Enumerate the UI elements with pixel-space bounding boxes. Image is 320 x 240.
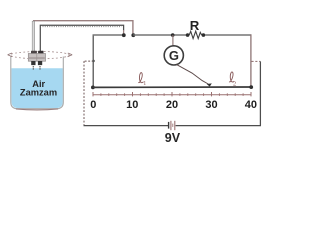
- beaker body walls: [11, 57, 64, 109]
- jockey wire from galvanometer: [176, 64, 208, 84]
- electrode prongs: [31, 61, 35, 65]
- beaker bottom edge: [16, 109, 58, 110]
- top wire to right corner: [205, 34, 251, 36]
- electrode block: [28, 54, 45, 62]
- ruler ticks: [93, 92, 251, 96]
- svg-text:10: 10: [126, 99, 138, 111]
- node on left vertical: [92, 60, 95, 63]
- svg-text:9V: 9V: [165, 131, 181, 145]
- beaker liquid (Air Zamzam): [12, 68, 63, 108]
- label l1 (script ell): [138, 73, 143, 83]
- prong dots into liquid: [33, 66, 35, 68]
- left electrode rod (light): [32, 21, 35, 51]
- node: cell left terminal: [122, 33, 126, 37]
- resistor R node right: [202, 33, 206, 37]
- beaker rim (dashed ellipse with spouts): [10, 52, 69, 59]
- right outer vertical wire: [259, 61, 261, 125]
- battery 9V plates: [168, 122, 170, 129]
- resistor R zigzag: [189, 31, 202, 38]
- right inner vertical wire: [250, 34, 252, 87]
- top wire left segment: [93, 34, 124, 36]
- wire from right electrode (inner, dark): [40, 25, 123, 51]
- label l2 (script ell): [229, 72, 234, 82]
- dashed stub to battery branch (right): [252, 60, 261, 62]
- battery branch dashed (left): [84, 60, 94, 62]
- node: ruler wire left end: [91, 86, 95, 90]
- svg-text:G: G: [169, 48, 179, 63]
- bottom wire left of battery: [84, 125, 169, 127]
- resistor R node left: [186, 33, 190, 37]
- bridge left vertical wire: [92, 35, 94, 88]
- bottom wire right of battery: [176, 125, 261, 127]
- svg-text:0: 0: [90, 99, 96, 111]
- coil texture under inner wire: [43, 26, 122, 28]
- wire from left electrode (top outer, brown): [33, 21, 133, 34]
- svg-text:1: 1: [143, 80, 146, 87]
- node: ruler wire right end: [249, 85, 253, 89]
- galvanometer stub wire: [172, 35, 174, 46]
- galvanometer G: [164, 46, 183, 65]
- potentiometer ruler wire: [93, 86, 251, 88]
- svg-text:20: 20: [166, 99, 178, 111]
- svg-text:R: R: [190, 18, 200, 33]
- ruler numbers: [90, 99, 257, 111]
- svg-text:30: 30: [205, 99, 217, 111]
- node: galvanometer tap: [171, 33, 175, 37]
- top wire right segment: [133, 34, 187, 36]
- svg-text:40: 40: [245, 99, 257, 111]
- svg-text:Zamzam: Zamzam: [20, 88, 57, 98]
- node: cell right terminal: [131, 33, 135, 37]
- ruler scale line: [93, 94, 251, 96]
- svg-text:2: 2: [233, 81, 236, 88]
- jockey arrowhead: [207, 83, 212, 86]
- electrode caps: [31, 51, 37, 54]
